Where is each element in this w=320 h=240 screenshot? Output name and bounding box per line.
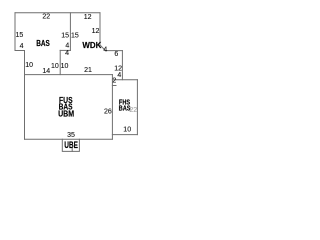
- svg-text:4: 4: [20, 43, 24, 50]
- svg-text:2: 2: [112, 77, 116, 84]
- svg-text:35: 35: [67, 132, 75, 139]
- wall main bottom: [25, 138, 113, 140]
- wall main right: [111, 75, 113, 140]
- svg-text:UBM: UBM: [58, 109, 74, 118]
- svg-text:12: 12: [84, 14, 92, 21]
- tick below UBE: [71, 148, 73, 151]
- wall WDK lower horizontal: [105, 50, 122, 52]
- wall step down to main top: [59, 50, 61, 74]
- svg-text:15: 15: [16, 32, 24, 39]
- svg-text:4: 4: [117, 72, 121, 79]
- svg-text:10: 10: [51, 63, 59, 70]
- wall FHS top: [112, 79, 137, 81]
- wall BAS WDK shared: [69, 13, 71, 51]
- wall WDK right: [99, 13, 101, 45]
- svg-text:15: 15: [71, 32, 79, 39]
- svg-text:15: 15: [61, 32, 69, 39]
- wall left step: [15, 50, 25, 52]
- svg-text:12: 12: [92, 28, 100, 35]
- wall UBE box: [62, 139, 79, 151]
- tick near node 2: [112, 85, 116, 87]
- wall left side down to bottom: [24, 51, 26, 140]
- wall top of BAS and WDK: [15, 12, 100, 14]
- svg-text:10: 10: [61, 63, 69, 70]
- svg-text:26: 26: [104, 108, 112, 115]
- wall FHS right: [136, 80, 138, 135]
- wall WDK diagonal: [100, 45, 105, 51]
- wall main top: [25, 74, 113, 76]
- svg-text:UBE: UBE: [64, 140, 78, 150]
- svg-text:14: 14: [42, 68, 50, 75]
- svg-text:10: 10: [25, 62, 33, 69]
- svg-text:10: 10: [123, 126, 131, 133]
- svg-text:22: 22: [42, 13, 50, 20]
- svg-text:4: 4: [103, 47, 107, 54]
- svg-text:WDK: WDK: [82, 41, 101, 50]
- svg-text:4: 4: [65, 50, 69, 57]
- svg-text:BAS: BAS: [36, 39, 50, 48]
- wall BAS left: [14, 13, 16, 51]
- wall WDK east down: [121, 51, 123, 80]
- wall FHS bottom: [112, 134, 137, 136]
- svg-text:21: 21: [84, 67, 92, 74]
- svg-text:BAS: BAS: [119, 103, 131, 112]
- wall right step of BAS: [60, 49, 70, 51]
- svg-text:6: 6: [114, 51, 118, 58]
- svg-text:4: 4: [65, 43, 69, 50]
